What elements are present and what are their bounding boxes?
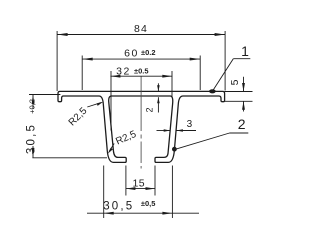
svg-text:+0,2: +0,2 [28,99,37,114]
svg-text:±0,5: ±0,5 [141,199,156,208]
svg-text:R2,5: R2,5 [114,129,138,148]
svg-text:15: 15 [133,178,145,190]
svg-text:2: 2 [144,107,154,112]
svg-text:30,5: 30,5 [25,123,37,154]
svg-text:2: 2 [238,116,246,132]
svg-text:R2,5: R2,5 [67,105,90,128]
svg-text:30,5: 30,5 [103,201,134,213]
svg-text:±0.2: ±0.2 [141,48,156,57]
svg-text:3: 3 [187,119,193,130]
svg-text:32: 32 [116,65,131,77]
svg-text:±0.5: ±0.5 [134,66,149,75]
svg-text:84: 84 [134,23,148,35]
svg-text:60: 60 [124,48,139,60]
svg-text:1: 1 [241,43,249,59]
svg-text:5: 5 [229,79,241,85]
